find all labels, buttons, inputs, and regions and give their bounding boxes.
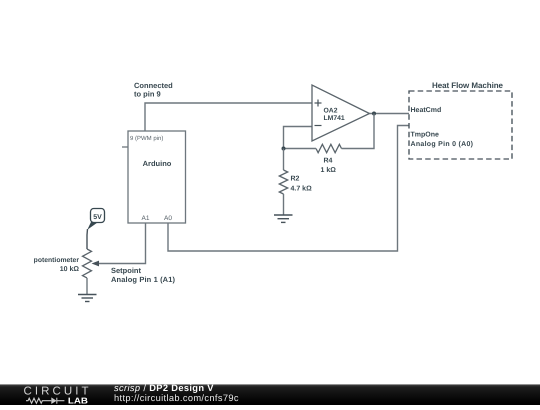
svg-text:Analog Pin 0 (A0): Analog Pin 0 (A0) <box>411 140 474 148</box>
svg-text:potentiometer: potentiometer <box>34 257 80 264</box>
unconnected stub pin on Arduino left side <box>122 146 128 148</box>
svg-text:R4: R4 <box>324 158 333 165</box>
svg-text:A0: A0 <box>164 215 172 222</box>
svg-text:R2: R2 <box>291 176 300 183</box>
CircuitLab logo <box>0 384 100 405</box>
svg-text:to pin 9: to pin 9 <box>134 90 161 99</box>
wire inverting-input node up to op-amp minus input <box>284 127 313 149</box>
svg-text:HeatCmd: HeatCmd <box>411 106 442 114</box>
Arduino box <box>128 131 186 223</box>
svg-text:Heat Flow Machine: Heat Flow Machine <box>432 81 504 90</box>
label: Connected to pin 9 <box>134 81 173 99</box>
svg-text:Analog Pin 1 (A1): Analog Pin 1 (A1) <box>111 275 176 284</box>
resistor R4 (zigzag) <box>316 144 342 152</box>
svg-text:9 (PWM pin): 9 (PWM pin) <box>130 135 163 142</box>
potentiometer 10k (zigzag body) <box>83 249 92 278</box>
wire 5V flag down to potentiometer top <box>86 229 89 249</box>
junction dot inverting input net <box>282 147 286 151</box>
svg-text:10 kΩ: 10 kΩ <box>60 265 80 273</box>
ground (R2) <box>274 215 293 222</box>
svg-text:Setpoint: Setpoint <box>111 266 141 275</box>
label Setpoint Analog Pin 1 (A1) <box>111 266 176 284</box>
svg-text:LAB: LAB <box>68 395 88 405</box>
wire pin 9 of Arduino up and right to op-amp non-inverting input <box>145 103 312 131</box>
wire node down to R2 <box>283 149 285 171</box>
svg-text:TmpOne: TmpOne <box>411 131 439 138</box>
svg-text:Arduino: Arduino <box>143 159 172 168</box>
label Arduino <box>143 159 172 168</box>
svg-text:4.7 kΩ: 4.7 kΩ <box>291 185 313 193</box>
footer title text <box>114 383 239 403</box>
pin label A1 <box>142 215 150 222</box>
wire A1 pin down and left to potentiometer wiper <box>98 223 146 264</box>
wire feedback from output down to R4 <box>342 114 375 149</box>
wire R4 left side to node <box>284 148 317 150</box>
pin label A0 <box>164 215 172 222</box>
wire op-amp output to HeatCmd pin <box>370 113 410 115</box>
potentiometer wiper arrow <box>92 261 100 267</box>
svg-text:OA2: OA2 <box>324 108 338 115</box>
label Heat Flow Machine <box>432 81 504 90</box>
pin label TmpOne / Analog Pin 0 (A0) <box>411 131 474 148</box>
Heat Flow Machine dashed box <box>409 91 512 159</box>
label OA2 LM741 <box>324 108 345 123</box>
wire A0 pin down, right and up to TmpOne <box>168 126 409 252</box>
label potentiometer 10 kOhm <box>34 257 80 273</box>
footer bar <box>0 384 540 405</box>
pin label HeatCmd <box>411 106 442 114</box>
wire R2 bottom to ground <box>283 194 285 215</box>
label R2 4.7 kOhm <box>291 176 313 193</box>
svg-text:LM741: LM741 <box>324 115 345 122</box>
voltage flag 5V <box>87 209 104 230</box>
svg-text:5V: 5V <box>93 214 102 221</box>
op-amp OA2 LM741 triangle <box>312 85 370 141</box>
pin label 9 (PWM pin) <box>130 135 163 142</box>
label R4 1 kOhm <box>321 158 337 175</box>
svg-text:1 kΩ: 1 kΩ <box>321 166 337 174</box>
wire potentiometer bottom to ground <box>86 278 88 295</box>
junction dot at op-amp output <box>372 112 376 116</box>
ground (potentiometer) <box>78 295 97 302</box>
svg-text:A1: A1 <box>142 215 150 222</box>
resistor R2 (zigzag) <box>279 170 287 194</box>
